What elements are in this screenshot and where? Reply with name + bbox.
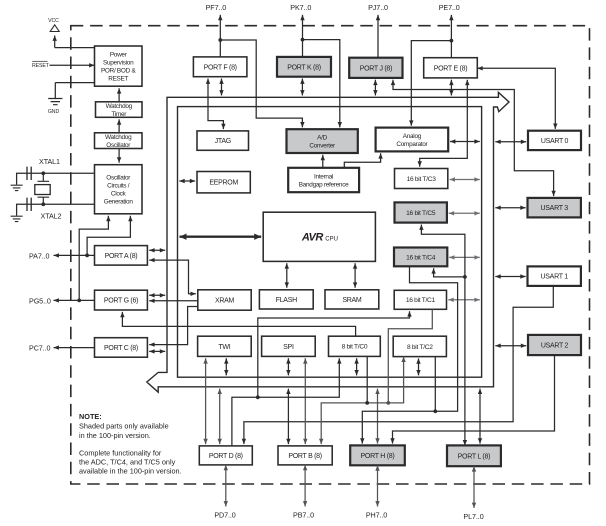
port PORT D (8) [199, 446, 252, 465]
wire C1 to ground [17, 173, 27, 184]
wire Bandgap to A/D Converter [321, 155, 325, 168]
svg-text:EEPROM: EEPROM [209, 180, 238, 187]
bus link USART 3 [495, 206, 525, 210]
wire PG junction to Oscillator Circuits [79, 216, 110, 301]
block 8 bit T/C 0 [329, 336, 381, 356]
svg-text:PORT L (8): PORT L (8) [458, 453, 490, 460]
block USART 2 [528, 335, 581, 355]
pin stub PA7..0 [54, 253, 95, 257]
svg-text:USART 3: USART 3 [541, 205, 569, 212]
wire USART 2 to PORT H [390, 355, 554, 444]
svg-text:PORT E (8): PORT E (8) [434, 65, 468, 72]
block Watchdog Oscillator [95, 133, 143, 149]
svg-text:Complete functionality for: Complete functionality for [79, 448, 162, 457]
capacitor C2 (XTAL2) [27, 198, 31, 211]
pin stub PB7..0 [303, 465, 307, 507]
svg-text:FLASH: FLASH [276, 297, 297, 304]
cpu AVR CPU [263, 212, 375, 261]
capacitor C1 (XTAL1) [27, 167, 31, 180]
wire Bandgap to Analog Comparator [344, 153, 383, 168]
wire PORT J to USART 3 [391, 80, 556, 196]
svg-text:XTAL1: XTAL1 [39, 157, 60, 166]
port PORT H (8) [350, 445, 405, 465]
bus link 16 bit T/C5 [449, 211, 480, 215]
svg-text:GND: GND [48, 109, 60, 115]
wire Watchdog Timer to Power Supervision [117, 88, 121, 102]
bus link PORT F [219, 79, 223, 96]
pin stub PD7..0 [224, 465, 228, 507]
block JTAG [197, 131, 249, 150]
wire PF pins to A/D Converter [220, 40, 304, 127]
bus link 8 bit T/C0 [354, 358, 358, 375]
svg-text:available in the 100-pin versi: available in the 100-pin version. [79, 467, 182, 476]
svg-text:Analog: Analog [403, 133, 422, 140]
wire USART 1 to PORT D [242, 286, 554, 444]
wire GND from Power Supervision [55, 82, 94, 84]
svg-text:PE7..0: PE7..0 [439, 3, 460, 12]
port PORT L (8) [447, 445, 501, 466]
block 16 bit T/C 3 [395, 169, 448, 189]
bus link 16 bit T/C1 [448, 298, 480, 302]
bus link PORT D [218, 389, 222, 445]
svg-text:PORT K (8): PORT K (8) [287, 64, 321, 71]
wire 8 bit T/C0 to PORT D [232, 358, 342, 445]
svg-text:RESET: RESET [108, 75, 128, 82]
wire SPI to PORT B [303, 358, 307, 444]
bus link USART 0 [495, 140, 526, 144]
port PORT B (8) [278, 446, 332, 465]
svg-text:PORT F (8): PORT F (8) [204, 64, 237, 71]
svg-text:16 bit T/C5: 16 bit T/C5 [406, 210, 436, 217]
svg-text:Comparator: Comparator [396, 141, 428, 148]
wire PORT L net to 16 bit T/C4 [431, 268, 465, 277]
note text [79, 412, 182, 476]
svg-text:JTAG: JTAG [215, 138, 231, 145]
wire XTAL1 [27, 171, 95, 175]
svg-text:XTAL2: XTAL2 [41, 211, 62, 220]
block Watchdog Timer [96, 102, 143, 118]
wire PORT C to XRAM [149, 307, 198, 347]
svg-text:VCC: VCC [48, 18, 59, 24]
svg-text:Clock: Clock [111, 191, 127, 198]
wire PE pins to Analog Comparator [409, 41, 451, 126]
wire PORT E to USART 0 [477, 66, 557, 129]
svg-text:Oscillator: Oscillator [106, 142, 131, 149]
block TWI [198, 336, 252, 356]
svg-text:PORT D (8): PORT D (8) [209, 453, 243, 460]
port PORT K (8) [277, 57, 331, 77]
block Power Supervision POR/BOD & RESET [95, 46, 143, 86]
bus link PORT E [449, 80, 453, 96]
wire PA junction to Oscillator Circuits [87, 216, 133, 256]
svg-text:PK7..0: PK7..0 [290, 3, 311, 12]
svg-text:16 bit T/C4: 16 bit T/C4 [406, 254, 436, 261]
bus link 16 bit T/C4 [449, 255, 480, 259]
svg-text:SPI: SPI [283, 344, 294, 351]
wire PORT F to JTAG [206, 79, 226, 130]
bus link PORT A [149, 248, 165, 252]
svg-text:Circuits /: Circuits / [107, 183, 130, 190]
ground symbol (C1) [11, 185, 23, 190]
wire PORT G to 8 bit T/C0 [120, 312, 355, 336]
svg-text:PD7..0: PD7..0 [214, 511, 235, 520]
VCC symbol (open triangle) [50, 25, 59, 32]
svg-text:Generation: Generation [104, 199, 134, 206]
svg-text:PL7..0: PL7..0 [463, 512, 483, 521]
pin stub PC7..0 [54, 345, 95, 349]
block EEPROM [197, 172, 250, 193]
data bus ring (outer outline with corner arrows) [147, 92, 509, 392]
svg-text:PJ7..0: PJ7..0 [368, 3, 388, 12]
pin stub PK7..0 [300, 15, 304, 57]
wire PORT A to XRAM [149, 258, 196, 296]
svg-text:in the 100-pin version.: in the 100-pin version. [79, 431, 151, 440]
bus link USART 2 [495, 344, 526, 348]
svg-text:PH7..0: PH7..0 [366, 511, 387, 520]
wire 8 bit T/C2 to PORT H net [434, 357, 436, 412]
svg-text:PF7..0: PF7..0 [206, 3, 227, 12]
block 16 bit T/C 4 [394, 248, 447, 267]
svg-text:16 bit T/C1: 16 bit T/C1 [406, 297, 436, 304]
bus link USART 1 [495, 274, 525, 278]
pin stub PJ7..0 [376, 15, 380, 58]
svg-text:Converter: Converter [309, 142, 336, 149]
wire TWI to PORT D [203, 358, 207, 444]
wire Watchdog Oscillator to Oscillator Circuits [117, 149, 121, 163]
svg-text:Timer: Timer [111, 111, 127, 118]
svg-text:PC7..0: PC7..0 [29, 343, 50, 352]
wire 8 bit T/C0 to PORT B net [365, 357, 369, 405]
block Internal Bandgap reference [288, 168, 359, 192]
wire VCC to Power Supervision [53, 36, 57, 48]
data bus ring (inner outline) [178, 107, 482, 378]
pin stub PF7..0 [218, 15, 222, 57]
svg-text:Watchdog: Watchdog [106, 103, 133, 110]
svg-text:Internal: Internal [314, 173, 333, 180]
port PORT F (8) [193, 57, 247, 77]
svg-text:AVR: AVR [301, 232, 323, 244]
bus link AVR CPU (wide) [180, 234, 262, 240]
block 8 bit T/C 2 [393, 336, 446, 356]
svg-text:Bandgap reference: Bandgap reference [299, 181, 349, 188]
svg-text:the ADC, T/C4, and T/C5 only: the ADC, T/C4, and T/C5 only [79, 458, 176, 467]
bus link PORT B [286, 389, 290, 445]
wire RESET into Power Supervision [50, 63, 95, 67]
svg-text:CPU: CPU [325, 236, 338, 242]
svg-text:16 bit T/C3: 16 bit T/C3 [407, 176, 437, 183]
wire Watchdog Oscillator to Watchdog Timer [117, 119, 121, 133]
svg-text:USART 1: USART 1 [541, 274, 569, 281]
svg-text:Shaded parts only available: Shaded parts only available [79, 422, 169, 431]
pin stub PL7..0 [472, 466, 476, 508]
svg-text:8 bit T/C0: 8 bit T/C0 [342, 344, 368, 351]
wire 8 bit T/C2 to PORT B [319, 357, 406, 445]
pin stub PH7..0 [375, 465, 379, 506]
bus link 16 bit T/C3 [450, 177, 480, 181]
port PORT A (8) [95, 246, 148, 266]
wire PK pins to A/D Converter [303, 40, 343, 128]
block USART 3 [528, 198, 581, 218]
bus link Analog Comparator [450, 139, 480, 143]
svg-text:PORT C (8): PORT C (8) [104, 345, 138, 352]
block Analog Comparator [376, 128, 449, 152]
svg-text:PORT J (8): PORT J (8) [360, 65, 392, 72]
crystal Y1 [35, 173, 50, 204]
svg-text:SRAM: SRAM [342, 297, 362, 304]
svg-text:Power: Power [110, 51, 128, 58]
block USART 1 [528, 266, 581, 286]
port PORT G (6) [95, 290, 148, 310]
block XRAM [198, 290, 251, 310]
wire PORT L to 16 bit T/C5 [419, 225, 467, 446]
wire C2 to ground [17, 204, 27, 215]
svg-text:RESET: RESET [32, 63, 50, 69]
block A/D Converter [287, 129, 358, 153]
wire PORT E to 16 bit T/C3 [418, 80, 470, 167]
svg-text:USART 0: USART 0 [541, 138, 569, 145]
svg-text:TWI: TWI [218, 344, 230, 351]
svg-text:PA7..0: PA7..0 [29, 251, 50, 260]
bus link TWI [224, 358, 228, 375]
port PORT J (8) [349, 58, 402, 78]
svg-text:USART 2: USART 2 [541, 343, 569, 350]
bus link PORT G [149, 293, 165, 297]
bus link 8 bit T/C2 [416, 358, 420, 375]
chip boundary (dashed) [71, 26, 590, 484]
ground symbol (C2) [11, 216, 23, 221]
svg-text:8 bit T/C2: 8 bit T/C2 [407, 344, 433, 351]
svg-text:Oscillator: Oscillator [106, 175, 131, 182]
port PORT C (8) [95, 338, 148, 358]
svg-text:Supervision: Supervision [103, 59, 134, 66]
bus link PORT K [300, 79, 304, 96]
wire PORT G to XRAM [149, 299, 198, 303]
svg-text:PORT A (8): PORT A (8) [105, 253, 138, 260]
svg-text:POR/ BOD &: POR/ BOD & [101, 67, 137, 74]
pin stub PE7..0 [449, 15, 453, 58]
pin stub PG5..0 [54, 298, 95, 302]
block FLASH [259, 290, 313, 309]
ground symbol (power section) [48, 99, 62, 105]
bus link SPI [286, 358, 290, 375]
bus link PORT J [373, 80, 377, 96]
block 16 bit T/C 5 [395, 202, 447, 222]
wire CPU to SRAM [353, 263, 357, 288]
svg-text:XRAM: XRAM [215, 298, 235, 305]
svg-text:A/D: A/D [317, 134, 327, 141]
svg-text:PORT G (6): PORT G (6) [104, 298, 138, 305]
wire XTAL2 [27, 202, 95, 206]
svg-text:PORT H (8): PORT H (8) [361, 453, 395, 460]
RESET overline [32, 60, 47, 62]
block SRAM [325, 290, 379, 309]
bus link PORT C [149, 349, 165, 353]
bus link PORT H [375, 389, 379, 444]
block Oscillator Circuits / Clock Generation [95, 165, 143, 214]
wire 16 bit T/C1 to PORT D net [258, 311, 412, 397]
block 16 bit T/C 1 [394, 290, 446, 309]
block SPI [262, 336, 316, 356]
svg-text:PORT B (8): PORT B (8) [288, 453, 322, 460]
bus link PORT L [478, 389, 482, 444]
wire 16 bit T/C4 to PORT H [360, 266, 458, 443]
svg-text:NOTE:: NOTE: [79, 412, 102, 421]
svg-text:PB7..0: PB7..0 [293, 511, 314, 520]
svg-text:Watchdog: Watchdog [105, 134, 132, 141]
bus link EEPROM [179, 179, 195, 183]
block USART 0 [528, 131, 581, 150]
wire 16 bit T/C1 to PORT B net [388, 309, 432, 403]
svg-text:PG5..0: PG5..0 [29, 296, 51, 305]
wire CPU to FLASH [285, 263, 289, 288]
port PORT E (8) [424, 58, 478, 78]
